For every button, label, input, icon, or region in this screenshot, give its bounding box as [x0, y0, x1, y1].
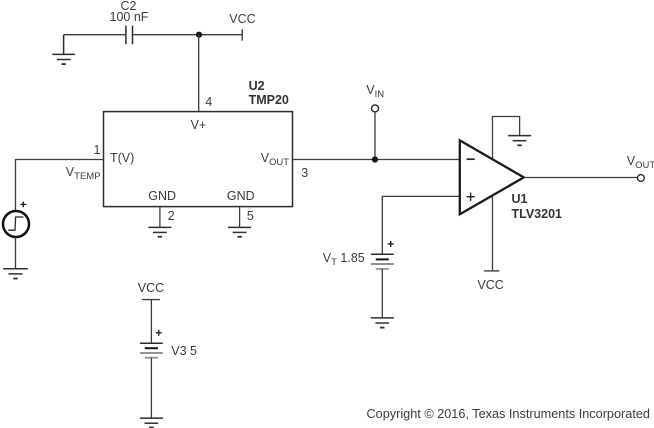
plus sign (VG1 polarity)	[21, 202, 27, 208]
power VCC terminal (top)	[241, 29, 243, 40]
ground (VT battery)	[371, 318, 394, 328]
ground (pin 2)	[148, 227, 171, 236]
designator U2	[249, 80, 265, 93]
wire (comparator V+ pin to ground)	[493, 117, 520, 160]
wire (pin 3 to comparator inverting input)	[293, 159, 460, 161]
wire (VCC to V3 battery)	[150, 300, 152, 344]
ground (VG1)	[3, 269, 28, 279]
pin number 3	[301, 167, 308, 180]
source VG1 (step voltage source)	[3, 211, 29, 237]
pin number 1	[94, 144, 101, 157]
pin number 2	[168, 210, 175, 223]
plus sign (V3 polarity)	[156, 330, 162, 336]
part TLV3201	[512, 208, 563, 221]
op-amp U1 (comparator triangle)	[460, 140, 524, 214]
minus symbol (inverting input)	[467, 158, 475, 160]
battery V3	[140, 343, 163, 357]
pin name T(V)	[110, 152, 134, 165]
pin name GND (pin 2)	[148, 190, 176, 203]
pin name VOUT	[261, 152, 289, 169]
capacitor C2	[126, 26, 133, 45]
net label VCC (V3)	[138, 282, 164, 295]
net label VTEMP	[66, 166, 101, 183]
wire (VG1 to ground)	[15, 237, 17, 269]
wire (pin 1 to source VG1)	[16, 160, 104, 212]
pin name V+	[191, 119, 207, 132]
pin number 5	[247, 210, 254, 223]
power VCC terminal (comparator)	[484, 270, 499, 272]
junction (VIN node)	[372, 156, 378, 162]
value V3 5	[171, 345, 197, 358]
ground (V3 battery)	[140, 418, 163, 427]
net label VOUT (output terminal)	[627, 155, 654, 172]
battery VT 1.85	[371, 254, 394, 269]
plus sign (VT polarity)	[388, 241, 394, 247]
wire (ground to C2 left plate)	[64, 34, 126, 36]
IC U2 TMP20 body	[104, 112, 293, 207]
ground (comparator positive supply ref)	[508, 136, 531, 146]
wire (comparator output to VOUT terminal)	[524, 177, 637, 179]
net label VCC (top)	[229, 13, 255, 26]
pin 5 stub	[239, 207, 241, 228]
net label VCC (comparator)	[477, 279, 503, 292]
terminal VIN (open circle)	[372, 105, 379, 112]
wire (VT battery to ground)	[381, 269, 383, 318]
pin 2 stub	[159, 207, 161, 228]
ground (pin 5)	[228, 227, 251, 236]
copyright note	[367, 408, 650, 421]
wire (junction to pin 4)	[198, 35, 200, 112]
power VCC terminal (V3 top)	[142, 299, 160, 301]
junction (C2 / V+ node)	[196, 32, 202, 38]
wire (V3 battery to ground)	[150, 358, 152, 418]
terminal VOUT (open circle)	[638, 175, 645, 182]
designator U1	[512, 193, 528, 206]
label C2	[121, 0, 137, 13]
wire (C2 right plate to VCC terminal)	[133, 34, 242, 36]
pin number 4	[205, 96, 212, 109]
wire (VIN to node)	[374, 112, 376, 159]
pin name GND (pin 5)	[227, 190, 255, 203]
value VT 1.85	[323, 252, 365, 269]
ground (C2 decoupling)	[52, 35, 75, 64]
part TMP20	[249, 94, 289, 107]
plus symbol (non-inverting input)	[467, 193, 475, 201]
wire (comparator V- pin to VCC)	[492, 195, 494, 271]
wire (non-inverting input to VT battery)	[382, 196, 459, 254]
net label VIN	[366, 84, 384, 101]
value 100 nF	[110, 11, 149, 24]
